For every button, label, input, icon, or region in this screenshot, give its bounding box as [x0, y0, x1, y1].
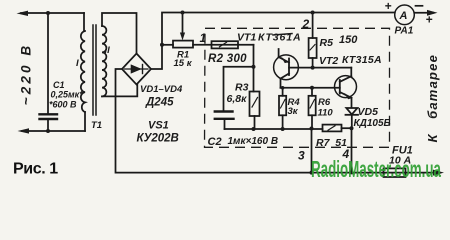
svg-text:КТ361А: КТ361А [258, 32, 302, 44]
svg-text:~220 В: ~220 В [19, 43, 34, 106]
svg-text:VD1–VD4: VD1–VD4 [140, 84, 183, 95]
svg-text:R6: R6 [318, 97, 331, 108]
svg-text:II: II [105, 45, 111, 56]
svg-text:R5: R5 [320, 37, 334, 49]
svg-text:КТ315А: КТ315А [342, 54, 382, 66]
svg-text:+: + [385, 0, 392, 13]
svg-text:Рис. 1: Рис. 1 [13, 161, 58, 178]
svg-text:I: I [76, 58, 79, 69]
svg-text:VT2: VT2 [319, 55, 338, 67]
svg-text:2: 2 [302, 17, 310, 31]
svg-text:3к: 3к [288, 106, 299, 117]
svg-text:К батарее: К батарее [425, 54, 440, 143]
svg-text:А: А [399, 10, 408, 22]
svg-text:3: 3 [298, 149, 305, 163]
svg-text:КУ202В: КУ202В [137, 133, 179, 145]
svg-text:1мк×160 В: 1мк×160 В [228, 136, 279, 147]
svg-text:+: + [426, 13, 433, 27]
svg-text:VS1: VS1 [148, 120, 169, 132]
svg-text:VD5: VD5 [358, 106, 379, 118]
svg-text:110: 110 [318, 108, 334, 119]
svg-text:РА1: РА1 [395, 26, 414, 37]
svg-text:R3: R3 [235, 82, 249, 94]
svg-text:КД105Б: КД105Б [354, 118, 391, 129]
svg-text:С2: С2 [208, 136, 222, 148]
svg-text:С1: С1 [53, 80, 65, 90]
svg-text:*600 В: *600 В [49, 100, 77, 110]
svg-text:RadioMaster.com.ua: RadioMaster.com.ua [311, 156, 441, 182]
svg-text:6,8к: 6,8к [227, 93, 248, 105]
svg-text:0,25мк*: 0,25мк* [51, 90, 84, 100]
svg-text:Т1: Т1 [91, 120, 102, 131]
svg-text:Д245: Д245 [145, 97, 174, 109]
svg-text:150: 150 [339, 34, 358, 46]
svg-text:15 к: 15 к [174, 58, 193, 69]
svg-text:1: 1 [200, 31, 207, 45]
svg-text:R2 300: R2 300 [208, 53, 247, 65]
svg-text:VT1: VT1 [237, 32, 256, 44]
